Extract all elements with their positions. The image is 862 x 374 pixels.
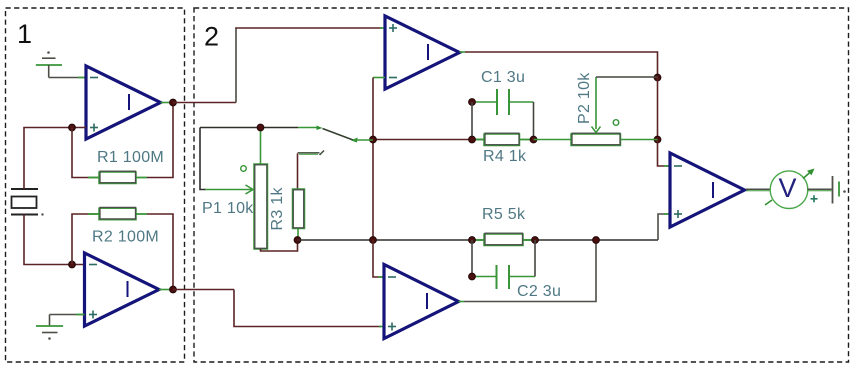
node P2 wiper tap bbox=[654, 74, 661, 81]
svg-text:1: 1 bbox=[17, 19, 32, 49]
resistor R2 100M bbox=[88, 207, 159, 245]
wire crystal bottom to U2 minus input bbox=[24, 215, 85, 265]
resistor R4 1k bbox=[472, 133, 534, 165]
ground GND2 (at U2 plus input) bbox=[36, 315, 85, 340]
node U4 output on rail bbox=[593, 237, 600, 244]
svg-text:R4 1k: R4 1k bbox=[483, 148, 527, 165]
wire U2 minus node up to R2 bbox=[72, 214, 99, 265]
svg-text:R2 100M: R2 100M bbox=[92, 229, 159, 246]
node R5 left bbox=[469, 237, 476, 244]
node U1 output bbox=[170, 99, 177, 106]
wire up to U3 plus input bbox=[235, 28, 237, 103]
svg-text:C1 3u: C1 3u bbox=[481, 69, 525, 86]
resistor R1 100M bbox=[88, 149, 164, 184]
node R5 right bbox=[532, 237, 539, 244]
wire to U5 minus input bbox=[658, 140, 671, 167]
wire P2 wiper to right column bbox=[596, 76, 658, 78]
resistor R3 1k bbox=[269, 154, 305, 241]
node R4 left bbox=[469, 136, 476, 143]
wire voltmeter to ground bbox=[808, 188, 832, 190]
node U2 output bbox=[170, 286, 177, 293]
wire P1 bottom to R3 bottom node bbox=[261, 240, 298, 251]
node R4 right bbox=[530, 136, 537, 143]
node R3 bottom bbox=[294, 237, 301, 244]
svg-text:R1 100M: R1 100M bbox=[97, 149, 164, 166]
node U2 minus input bbox=[69, 261, 76, 268]
wire U1 output to stage 2 bbox=[173, 102, 236, 104]
resistor R5 5k bbox=[472, 206, 535, 246]
node P1 top bbox=[257, 124, 264, 131]
wire U2 output lead bbox=[159, 289, 173, 291]
op-amp U4 bbox=[384, 265, 459, 339]
svg-text:R3 1k: R3 1k bbox=[269, 187, 286, 231]
wire U1 plus node down to R1 bbox=[72, 128, 99, 178]
wire U3 minus down the feedback column bbox=[372, 78, 374, 241]
node bottom rail / feedback column bbox=[370, 237, 377, 244]
svg-text:R5 5k: R5 5k bbox=[482, 206, 526, 223]
wire U2 output to stage 2 bbox=[173, 289, 234, 291]
svg-text:C2 3u: C2 3u bbox=[517, 283, 561, 300]
wire C1 left down to R4 rail bbox=[471, 102, 473, 140]
mid rail from feedback column to R4 bbox=[373, 139, 484, 141]
ground GND1 (flipped, at U1 noninverting side) bbox=[36, 51, 62, 77]
stage 2 dashed frame bbox=[194, 8, 849, 362]
svg-text:P2 10k: P2 10k bbox=[576, 72, 593, 124]
wire rail to U5 plus input bbox=[658, 214, 670, 240]
stage 1 dashed frame bbox=[6, 8, 185, 362]
potentiometer P1 10k bbox=[200, 128, 268, 250]
wire R1 right to U1 output bbox=[147, 103, 173, 178]
wire to U4 minus input bbox=[373, 240, 384, 277]
node U1 plus input bbox=[69, 124, 76, 131]
svg-text:V: V bbox=[779, 173, 797, 203]
wire U4 output bbox=[459, 301, 465, 303]
op-amp U3 bbox=[385, 16, 460, 89]
wire C1 right down to R4 rail bbox=[533, 102, 535, 140]
capacitor C2 3u bbox=[472, 240, 561, 300]
ground GND3 (rotated right) bbox=[833, 176, 846, 204]
wire GND1 to U1 minus input bbox=[49, 77, 86, 79]
node C2 left bbox=[469, 273, 476, 280]
wire down to U4 plus input bbox=[234, 290, 381, 327]
op-amp U2 bbox=[85, 253, 160, 326]
node P2 right terminal bbox=[654, 136, 661, 143]
potentiometer P2 10k bbox=[534, 72, 658, 146]
wire right column down bbox=[657, 78, 659, 140]
crystal sensor XT1 bbox=[11, 189, 44, 216]
svg-text:2: 2 bbox=[204, 22, 219, 52]
wire crystal top to U1 plus input bbox=[24, 128, 86, 190]
node feedback column / mid rail bbox=[370, 136, 377, 143]
op-amp U1 bbox=[86, 66, 161, 139]
switch SW1 bbox=[200, 126, 373, 156]
bottom rail bbox=[298, 239, 659, 241]
node C1 left bbox=[469, 99, 476, 106]
wire U1 output lead bbox=[161, 102, 174, 104]
wire U3 output to right column bbox=[460, 51, 466, 53]
voltmeter VM1 bbox=[746, 169, 818, 209]
wire U3 minus elbow bbox=[373, 77, 385, 79]
svg-text:P1 10k: P1 10k bbox=[202, 200, 254, 217]
op-amp U5 bbox=[670, 153, 745, 227]
capacitor C1 3u bbox=[472, 69, 534, 115]
wire R2 right to U2 output bbox=[147, 214, 173, 290]
